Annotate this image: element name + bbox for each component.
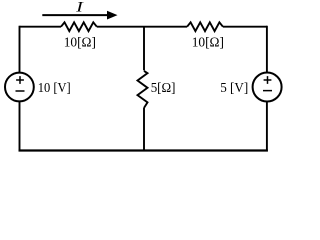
svg-text:10[Ω]: 10[Ω]: [192, 34, 224, 49]
svg-text:5[Ω]: 5[Ω]: [151, 80, 176, 95]
svg-text:5 [V]: 5 [V]: [220, 80, 248, 95]
svg-text:I: I: [75, 0, 84, 15]
svg-text:10 [V]: 10 [V]: [38, 80, 71, 95]
svg-text:10[Ω]: 10[Ω]: [64, 34, 96, 49]
